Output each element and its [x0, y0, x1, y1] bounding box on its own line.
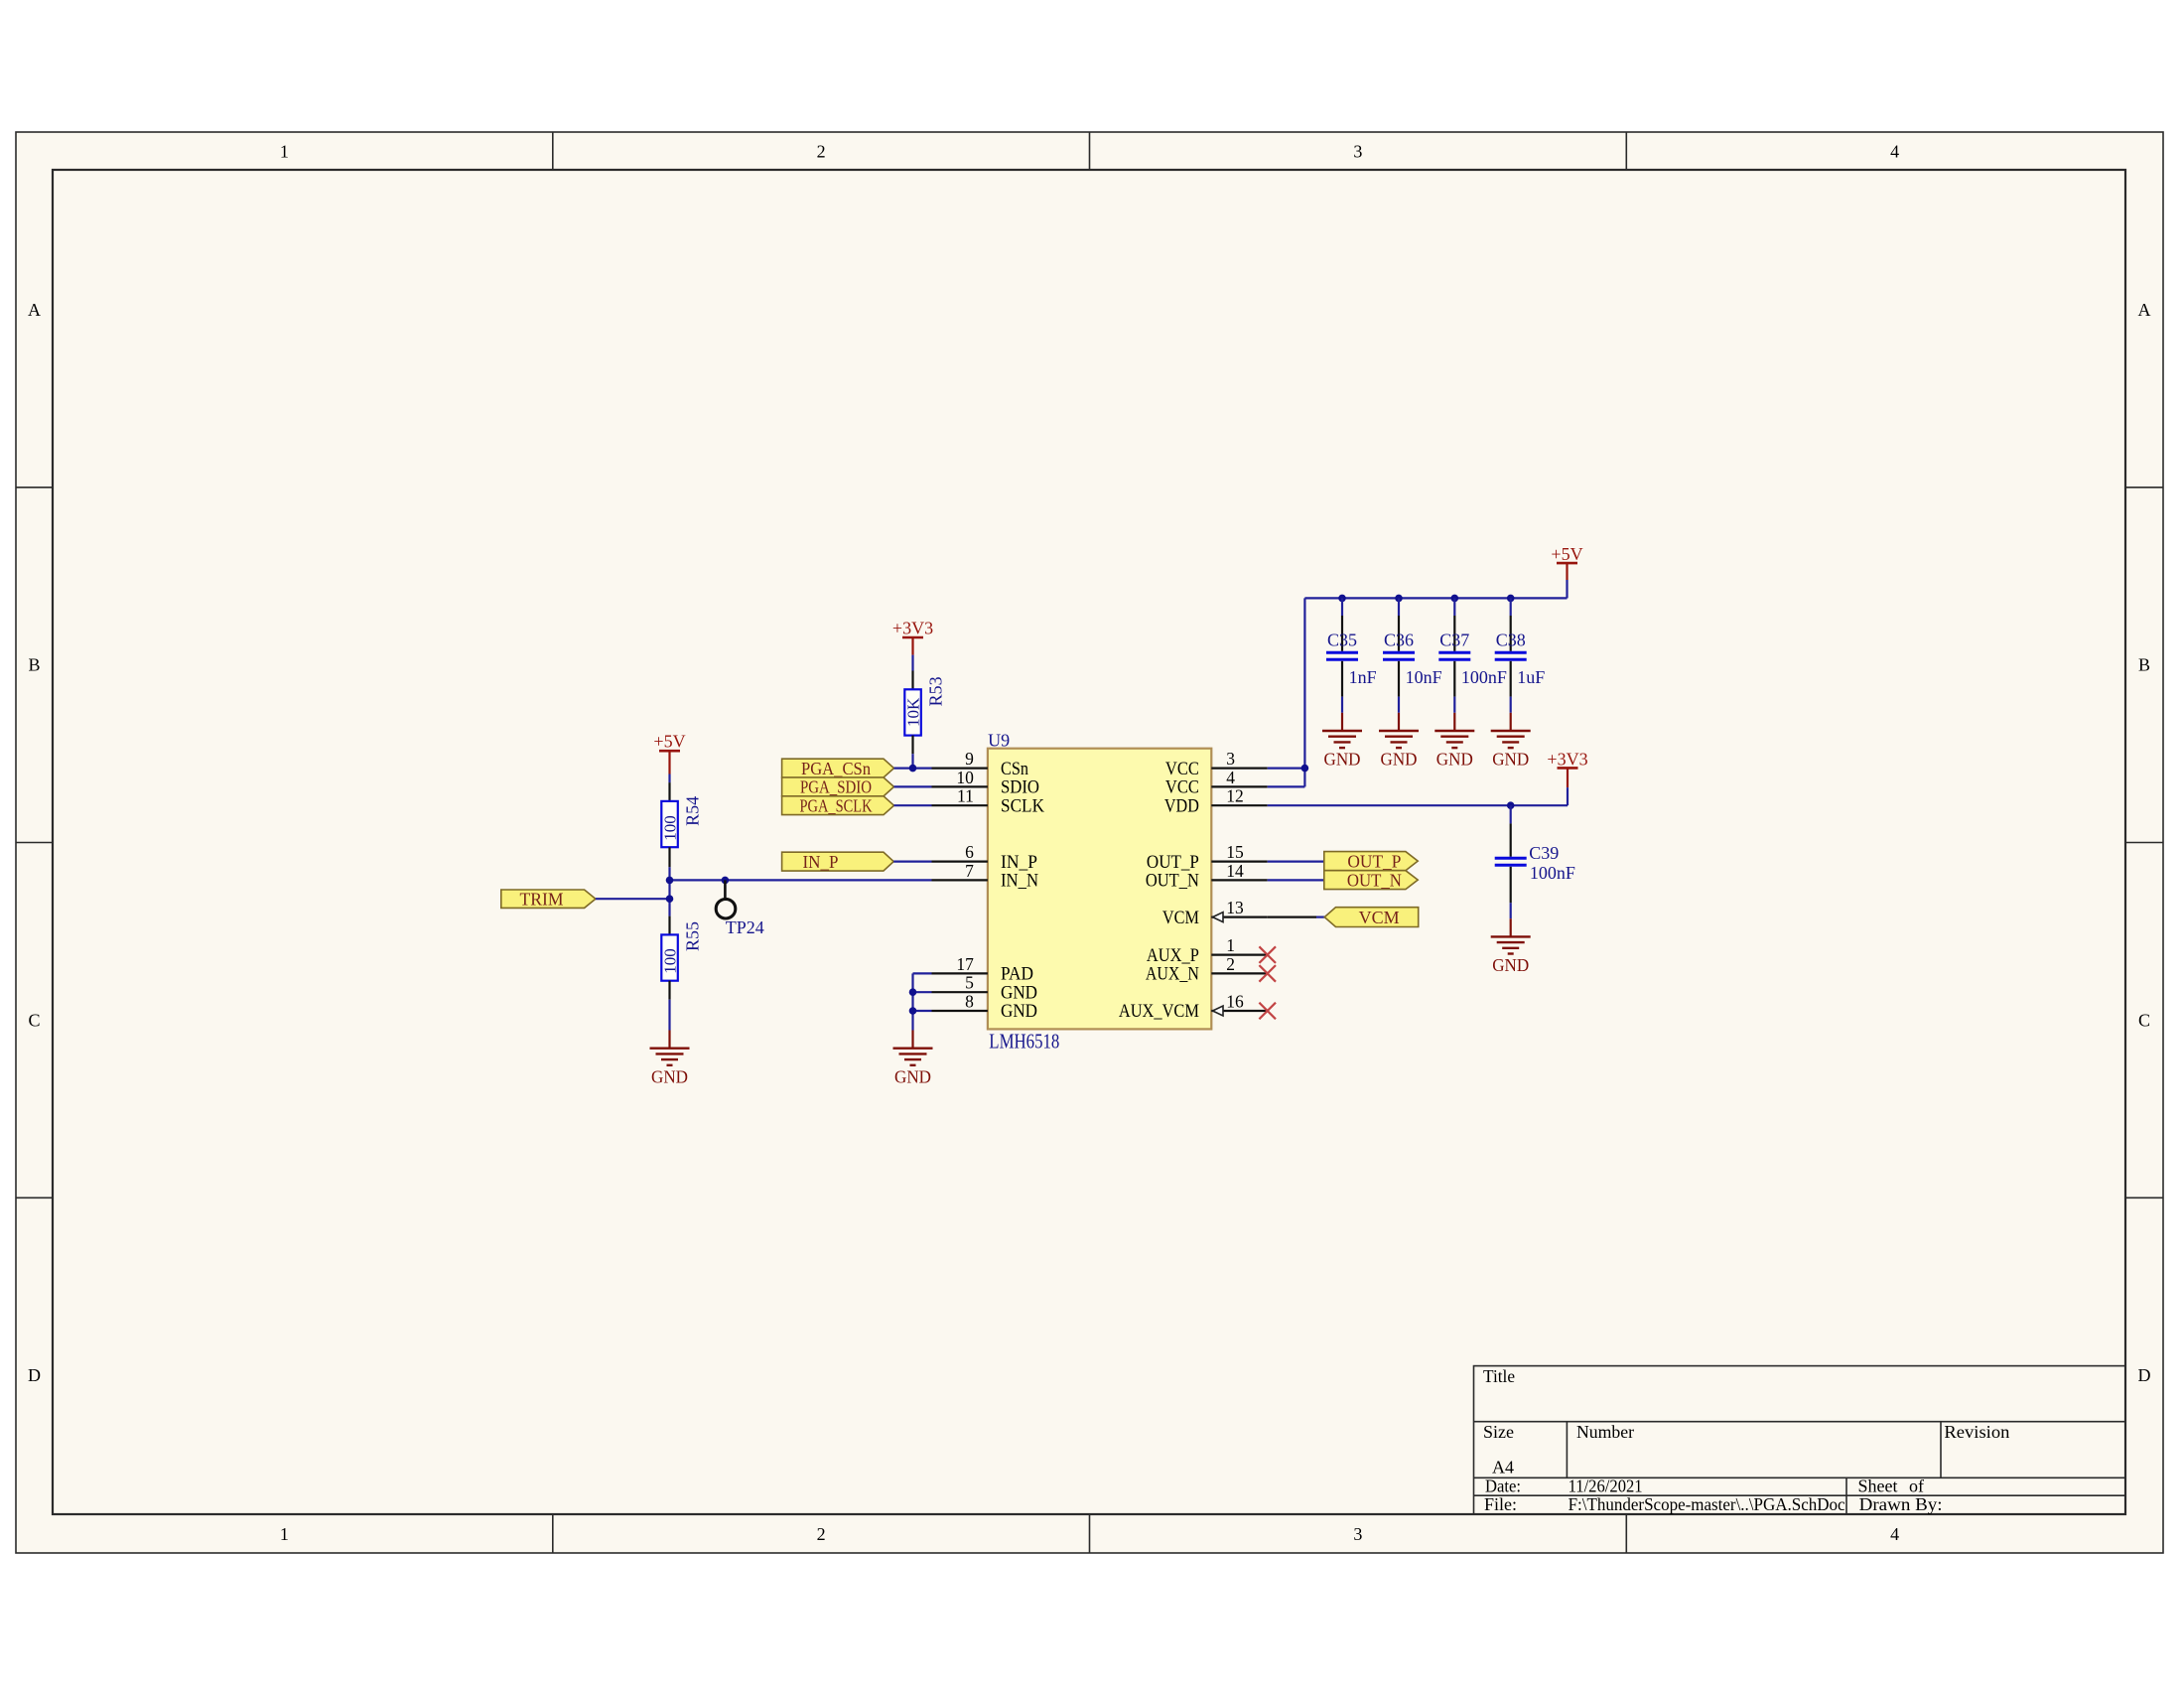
svg-text:2: 2 [817, 142, 826, 162]
svg-text:OUT_P: OUT_P [1147, 853, 1199, 873]
svg-text:13: 13 [1226, 898, 1244, 917]
wire PGA_SCLK to pin 11 [894, 804, 932, 806]
ground GND (under C37) [1453, 713, 1455, 731]
power +3V3 (R53 pull-up) [902, 636, 923, 639]
wire C36 to GND [1398, 697, 1400, 713]
border column dividers [552, 132, 554, 170]
svg-text:+3V3: +3V3 [1547, 750, 1587, 770]
svg-text:F:\ThunderScope-master\..\PGA.: F:\ThunderScope-master\..\PGA.SchDoc [1569, 1494, 1845, 1514]
svg-text:GND: GND [1436, 750, 1473, 770]
pin 8 GND (left) [932, 1010, 988, 1012]
svg-text:VCM: VCM [1162, 909, 1199, 928]
svg-text:OUT_N: OUT_N [1146, 872, 1199, 892]
pin 6 IN_P (left) [932, 860, 988, 862]
svg-text:GND: GND [1324, 750, 1361, 770]
svg-text:11/26/2021: 11/26/2021 [1569, 1477, 1643, 1496]
wire IN_N net to pin 7 [670, 879, 932, 881]
svg-text:2: 2 [817, 1524, 826, 1544]
pin 10 SDIO (left) [932, 785, 988, 787]
svg-text:Title: Title [1483, 1366, 1515, 1386]
svg-text:5: 5 [965, 973, 974, 993]
svg-text:C38: C38 [1496, 631, 1526, 650]
svg-text:GND: GND [1001, 1002, 1037, 1022]
wire +3V3 to VDD corner [1567, 787, 1569, 805]
title block column lines [1566, 1422, 1568, 1478]
title block row lines [1474, 1421, 2126, 1423]
svg-text:6: 6 [965, 842, 974, 862]
svg-text:C39: C39 [1529, 843, 1559, 863]
svg-text:100nF: 100nF [1461, 667, 1507, 687]
svg-text:11: 11 [957, 786, 974, 806]
capacitor C37 100nF [1451, 595, 1459, 603]
wire pin 13 to VCM port [1268, 915, 1316, 917]
svg-text:IN_P: IN_P [1001, 853, 1037, 873]
svg-text:4: 4 [1890, 142, 1899, 162]
resistor R55 100 [668, 916, 670, 935]
svg-text:IN_P: IN_P [803, 852, 839, 872]
port OUT_N [1324, 871, 1418, 890]
svg-text:CSn: CSn [1001, 760, 1028, 779]
svg-text:Revision: Revision [1944, 1422, 2009, 1442]
svg-text:+5V: +5V [653, 732, 685, 752]
svg-text:3: 3 [1353, 1524, 1362, 1544]
svg-text:12: 12 [1226, 786, 1244, 806]
svg-text:A: A [2138, 300, 2151, 320]
svg-text:OUT_P: OUT_P [1347, 851, 1401, 871]
power +5V (divider top) [659, 750, 680, 753]
svg-text:PGA_SDIO: PGA_SDIO [800, 777, 872, 797]
port OUT_P [1324, 852, 1418, 871]
node junction PGA_CSn/R53 [909, 765, 917, 773]
ground GND (under C35) [1341, 713, 1343, 731]
resistor R54 100 [668, 782, 670, 801]
pin 17 PAD (left) [932, 972, 988, 974]
svg-text:LMH6518: LMH6518 [989, 1029, 1059, 1053]
node junction C39 [1507, 801, 1515, 809]
svg-text:R54: R54 [683, 796, 703, 826]
svg-text:3: 3 [1226, 749, 1235, 769]
svg-text:GND: GND [1381, 750, 1418, 770]
svg-text:Date:: Date: [1485, 1477, 1521, 1496]
svg-text:9: 9 [965, 749, 974, 769]
svg-text:File:: File: [1484, 1494, 1517, 1514]
wire C37 to GND [1453, 697, 1455, 713]
wire PGA_CSn to pin 9 [894, 767, 932, 769]
svg-text:VCC: VCC [1165, 760, 1199, 779]
svg-text:1: 1 [280, 1524, 289, 1544]
svg-text:GND: GND [1001, 983, 1037, 1003]
svg-text:IN_N: IN_N [1001, 872, 1038, 892]
svg-text:PGA_SCLK: PGA_SCLK [800, 796, 873, 816]
wire pin 3 VCC to rail [1268, 767, 1305, 769]
capacitor C39 100nF [1510, 805, 1512, 823]
svg-text:R55: R55 [683, 921, 703, 951]
pin 15 OUT_P (right) [1211, 860, 1267, 862]
svg-text:GND: GND [894, 1066, 931, 1086]
pin 13 VCM (right) [1211, 915, 1267, 917]
svg-text:Size: Size [1483, 1422, 1514, 1442]
svg-text:2: 2 [1226, 954, 1235, 974]
svg-text:3: 3 [1353, 142, 1362, 162]
wire C38 to GND [1510, 697, 1512, 713]
svg-text:1: 1 [280, 142, 289, 162]
wire IN_P to pin 6 [893, 860, 931, 862]
svg-text:+3V3: +3V3 [892, 619, 933, 638]
pin 4 VCC (right) [1211, 785, 1267, 787]
svg-text:10: 10 [956, 768, 974, 787]
node junction IN_N at TP24 [722, 877, 730, 885]
wire PGA_SDIO to pin 10 [894, 785, 932, 787]
wire C35 to GND [1341, 697, 1343, 713]
svg-text:C36: C36 [1384, 631, 1414, 650]
wire pin 15 to OUT_P port [1268, 860, 1324, 862]
power +3V3 (VDD) [1558, 767, 1578, 770]
svg-text:+5V: +5V [1551, 544, 1582, 564]
wire IN_N node to TRIM node to R55 [668, 880, 670, 915]
wire R53 to PGA_CSn net [911, 754, 913, 768]
pin 3 VCC (right) [1211, 767, 1267, 769]
pin 12 VDD (right) [1211, 804, 1267, 806]
svg-text:Drawn By:: Drawn By: [1859, 1494, 1943, 1514]
svg-text:10nF: 10nF [1406, 667, 1442, 687]
svg-text:C37: C37 [1439, 631, 1469, 650]
svg-text:C: C [28, 1010, 40, 1030]
svg-text:TP24: TP24 [726, 917, 764, 937]
ground GND (IC pad) [911, 1031, 913, 1049]
svg-text:AUX_N: AUX_N [1146, 965, 1199, 985]
svg-text:100: 100 [661, 815, 680, 841]
svg-text:VCC: VCC [1165, 778, 1199, 798]
svg-text:16: 16 [1226, 992, 1244, 1012]
svg-text:GND: GND [651, 1066, 688, 1086]
svg-text:C: C [2138, 1010, 2150, 1030]
wire +5V decoupling rail [1304, 597, 1567, 599]
port PGA_CSn [782, 759, 894, 777]
svg-text:100nF: 100nF [1530, 863, 1575, 883]
pin 5 GND (left) [932, 991, 988, 993]
svg-text:PAD: PAD [1001, 965, 1033, 985]
port VCM [1324, 908, 1419, 927]
svg-text:4: 4 [1890, 1524, 1899, 1544]
svg-text:VCM: VCM [1359, 908, 1400, 927]
svg-text:10K: 10K [904, 697, 923, 727]
svg-text:R53: R53 [926, 676, 946, 706]
wire rail to +5V [1566, 580, 1568, 598]
svg-text:D: D [2138, 1365, 2151, 1385]
node junction TRIM [666, 895, 674, 903]
svg-text:8: 8 [965, 992, 974, 1012]
svg-text:7: 7 [965, 861, 974, 881]
svg-text:B: B [28, 655, 40, 675]
pin 11 SCLK (left) [932, 804, 988, 806]
wire VDD net pin 12 [1268, 804, 1568, 806]
ground GND (under C38) [1510, 713, 1512, 731]
svg-text:1: 1 [1226, 935, 1235, 955]
wire pin 4 VCC corner [1268, 785, 1305, 787]
title block outline [1474, 1366, 2126, 1514]
svg-text:AUX_P: AUX_P [1147, 946, 1199, 966]
port TRIM [501, 890, 596, 908]
svg-text:B: B [2138, 655, 2150, 675]
sheet inner border frame [53, 170, 2125, 1514]
svg-text:A: A [28, 300, 41, 320]
wire R54 to IN_N node [668, 867, 670, 880]
svg-text:of: of [1909, 1477, 1924, 1496]
svg-text:C35: C35 [1327, 631, 1357, 650]
node junction GND pin 8 [909, 1007, 917, 1015]
pin 9 CSn (left) [932, 767, 988, 769]
svg-text:OUT_N: OUT_N [1347, 870, 1402, 890]
ground GND (below R55) [668, 1031, 670, 1049]
wire VCC vertical riser [1303, 598, 1305, 786]
svg-text:1nF: 1nF [1349, 667, 1377, 687]
pin 1 AUX_P (right) [1211, 953, 1267, 955]
svg-text:VDD: VDD [1164, 796, 1199, 816]
pin 2 AUX_N (right) [1211, 972, 1267, 974]
ground GND (under C39) [1510, 918, 1512, 936]
svg-text:TRIM: TRIM [520, 890, 564, 910]
pin 7 IN_N (left) [932, 879, 988, 881]
node junction VCC pin3 [1301, 765, 1309, 773]
svg-text:AUX_VCM: AUX_VCM [1119, 1002, 1199, 1022]
svg-text:SDIO: SDIO [1001, 778, 1039, 798]
wire R55 to GND [668, 1000, 670, 1031]
svg-text:GND: GND [1492, 955, 1529, 975]
power +5V (decoupling rail) [1557, 562, 1577, 565]
svg-text:D: D [28, 1365, 41, 1385]
svg-text:100: 100 [661, 948, 680, 974]
port PGA_SDIO [782, 777, 894, 796]
wire +3V3 to R53 [911, 655, 913, 671]
wire PAD/GND pins to GND [913, 972, 932, 974]
op-amp U9 LMH6518 body [988, 749, 1211, 1030]
pin 16 AUX_VCM (right) [1211, 1010, 1267, 1012]
node junction IN_N at divider [666, 877, 674, 885]
capacitor C36 10nF [1395, 595, 1403, 603]
svg-text:PGA_CSn: PGA_CSn [801, 759, 871, 778]
testpoint TP24 [724, 880, 727, 898]
svg-text:1uF: 1uF [1517, 667, 1545, 687]
svg-text:4: 4 [1226, 768, 1235, 787]
resistor R53 10K [911, 671, 913, 690]
svg-text:A4: A4 [1492, 1458, 1514, 1477]
port IN_P [782, 852, 894, 871]
svg-text:Sheet: Sheet [1858, 1477, 1898, 1496]
svg-text:GND: GND [1492, 750, 1529, 770]
svg-text:15: 15 [1226, 842, 1244, 862]
port PGA_SCLK [782, 796, 894, 815]
node junction GND pin 5 [909, 988, 917, 996]
wire C39 to GND [1510, 903, 1512, 918]
capacitor C35 1nF [1338, 595, 1346, 603]
svg-text:14: 14 [1226, 861, 1244, 881]
svg-text:Number: Number [1576, 1422, 1634, 1442]
pin 14 OUT_N (right) [1211, 879, 1267, 881]
svg-text:U9: U9 [988, 731, 1010, 751]
svg-text:SCLK: SCLK [1001, 796, 1045, 816]
svg-text:17: 17 [956, 954, 974, 974]
wire +5V to R54 [668, 774, 670, 783]
ground GND (under C36) [1398, 713, 1400, 731]
border row dividers [16, 487, 53, 489]
wire pin 14 to OUT_N port [1268, 879, 1324, 881]
wire TRIM to node [596, 898, 670, 900]
capacitor C38 1uF [1507, 595, 1515, 603]
